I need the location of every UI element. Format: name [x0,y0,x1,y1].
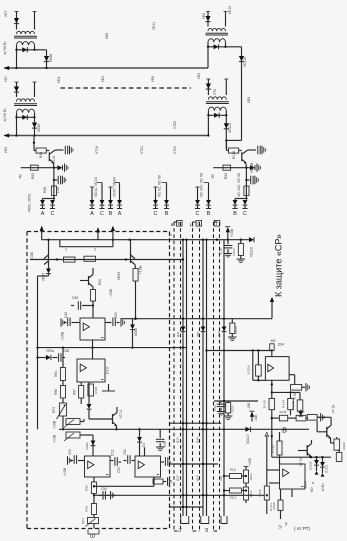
svg-text:А: А [118,211,122,217]
svg-text:В: В [165,211,169,217]
svg-text:а(+26 В): а(+26 В) [3,108,7,121]
svg-text:R111: R111 [230,468,237,472]
svg-text:VD121: VD121 [325,464,329,473]
svg-text:VT19: VT19 [95,146,99,154]
svg-text:2: 2 [94,248,96,252]
svg-text:УЕ12: УЕ12 [228,6,232,14]
svg-text:С19: С19 [213,405,217,411]
svg-text:D10: D10 [106,367,110,374]
svg-text:VD117: VD117 [246,434,250,444]
svg-text:Д10: Д10 [176,475,180,481]
svg-text:D34: D34 [278,343,285,347]
svg-text:R129: R129 [342,442,346,449]
svg-text:VD 104, VD 99: VD 104, VD 99 [200,173,204,197]
svg-text:С42: С42 [64,312,68,318]
svg-text:R178: R178 [232,151,236,159]
svg-text:УЕ2: УЕ2 [101,76,105,82]
svg-text:К защите «СР»: К защите «СР» [274,234,284,297]
svg-text:+15В: +15В [61,331,65,340]
svg-text:в«Б»: в«Б» [321,483,325,491]
svg-text:VD50, VD51: VD50, VD51 [28,193,32,212]
svg-text:VD7: VD7 [4,11,8,18]
svg-text:VD57, VD64: VD57, VD64 [113,177,117,197]
svg-text:R030: R030 [234,326,238,334]
svg-text:С: С [100,211,104,217]
svg-text:УЕ99: УЕ99 [117,272,121,280]
svg-text:пр: пр [284,522,288,526]
svg-text:С96: С96 [72,296,78,300]
svg-text:VD37: VD37 [42,273,46,282]
svg-text:VT 33: VT 33 [332,405,336,414]
svg-text:VD11В: VD11В [250,162,254,173]
svg-text:2: 2 [65,248,67,252]
svg-text:R148: R148 [280,410,287,414]
svg-text:Д30: Д30 [196,437,200,443]
svg-text:R101: R101 [94,386,98,394]
svg-text:VD113: VD113 [228,123,232,133]
svg-text:R50: R50 [85,485,89,491]
svg-text:а(+26 В): а(+26 В) [3,41,7,54]
svg-text:В: В [282,426,287,435]
svg-text:+15В: +15В [53,434,57,443]
svg-text:Д20: Д20 [196,475,200,481]
svg-text:С: С [197,221,200,226]
svg-text:Ш: Ш [204,528,209,532]
svg-text:С61: С61 [123,449,127,455]
svg-text:Ц: Ц [190,222,194,227]
svg-text:+15В: +15В [53,420,57,429]
svg-text:Д11: Д11 [142,442,146,448]
svg-text:УЕ8: УЕ8 [247,97,251,103]
svg-text:VT 34: VT 34 [299,458,303,467]
svg-text:Б: Б [178,221,181,226]
svg-text:R92: R92 [98,279,102,285]
svg-text:R83: R83 [31,173,35,179]
svg-text:VT22: VT22 [173,121,177,129]
svg-text:-7В: -7В [211,174,215,180]
svg-text:R149: R149 [298,410,305,414]
svg-text:С94: С94 [56,187,60,193]
svg-text:VT 11: VT 11 [119,410,123,419]
svg-text:R128: R128 [272,502,276,509]
svg-text:VD118: VD118 [250,247,254,257]
svg-text:R114: R114 [249,490,253,497]
svg-text:С79: С79 [219,248,223,254]
svg-text:VT20: VT20 [173,146,177,154]
svg-text:УЕ6: УЕ6 [151,76,155,82]
svg-text:а: а [312,481,314,485]
svg-text:С: С [196,211,200,217]
svg-text:VD95: VD95 [134,328,138,336]
svg-text:R113: R113 [249,473,253,480]
svg-text:U: U [278,525,283,528]
svg-text:-15В: -15В [30,252,34,260]
svg-text:-7В: -7В [18,174,22,180]
svg-text:М5: М5 [271,339,276,343]
svg-text:С53: С53 [117,467,121,473]
svg-text:В: В [233,211,237,217]
svg-text:+15В: +15В [63,467,67,476]
svg-text:Д10: Д10 [217,331,221,337]
svg-text:VD81: VD81 [85,442,89,450]
svg-text:VD45: VD45 [37,124,41,133]
svg-text:R110: R110 [232,248,236,255]
svg-text:R139: R139 [258,489,262,496]
svg-text:УЕ11: УЕ11 [152,22,156,30]
svg-text:-15В: -15В [254,414,258,422]
svg-text:С52: С52 [68,449,72,455]
svg-text:УЕ5: УЕ5 [202,13,206,19]
svg-text:С: С [154,211,158,217]
svg-text:УЕ9а: УЕ9а [46,349,54,353]
svg-text:С: С [243,211,247,217]
svg-text:R 145: R 145 [291,401,295,409]
svg-text:VD 62, VD 66: VD 62, VD 66 [158,175,162,197]
svg-text:D11: D11 [111,449,115,456]
svg-text:«Б»: «Б» [310,487,314,493]
svg-text:R49: R49 [85,506,89,512]
svg-text:+15В: +15В [230,228,234,237]
svg-text:( от РТ): ( от РТ) [294,526,310,531]
svg-text:+15В: +15В [139,265,143,274]
svg-text:R112: R112 [230,496,237,500]
svg-text:R 144: R 144 [281,400,285,408]
svg-text:RP1: RP1 [81,518,85,524]
svg-text:VD120: VD120 [309,461,313,470]
svg-text:R84: R84 [54,371,58,377]
svg-text:R46: R46 [43,187,47,193]
svg-text:VD 103, VD 98: VD 103, VD 98 [237,173,241,197]
svg-text:VT21: VT21 [140,146,144,154]
svg-text:-15В: -15В [109,289,113,297]
svg-text:VT2: VT2 [213,89,217,95]
svg-text:R115: R115 [231,405,235,412]
svg-text:Д13: Д13 [176,437,180,443]
svg-text:R114: R114 [52,156,56,164]
svg-text:RP2: RP2 [52,407,56,413]
svg-text:С55: С55 [163,441,167,447]
svg-text:VD119: VD119 [247,365,251,374]
svg-text:VD41, VD43: VD41, VD43 [94,177,98,197]
svg-text:С: С [51,211,55,217]
svg-text:С54: С54 [101,487,107,491]
svg-text:R 143: R 143 [263,400,267,408]
svg-text:Д31: Д31 [176,331,180,337]
svg-text:VD88: VD88 [49,54,53,63]
svg-text:R83: R83 [224,173,228,179]
svg-text:С58: С58 [63,349,69,353]
svg-text:А: А [41,211,45,217]
svg-text:УЛ3: УЛ3 [4,147,8,153]
svg-text:С50: С50 [114,312,118,318]
svg-text:D14: D14 [304,481,308,488]
svg-text:Д01: Д01 [196,331,200,337]
svg-text:Ц: Ц [177,528,182,532]
svg-text:Ц21: Ц21 [219,475,223,481]
svg-text:R86: R86 [54,389,58,395]
svg-text:- 15В: - 15В [247,402,251,411]
svg-text:R49: R49 [39,152,43,158]
svg-text:УЕ8: УЕ8 [105,33,109,39]
svg-text:+15В: +15В [248,458,252,466]
svg-text:УЛ1: УЛ1 [4,76,8,82]
svg-text:УЕ3: УЕ3 [197,73,201,79]
svg-text:А: А [90,211,94,217]
svg-text:R87: R87 [73,389,77,395]
svg-text:В: В [109,211,113,217]
svg-text:R 142: R 142 [271,445,275,453]
svg-text:б: б [169,234,173,236]
svg-text:В: В [207,211,211,217]
svg-text:VD116: VD116 [243,57,247,67]
svg-text:УЕ4: УЕ4 [57,77,61,83]
